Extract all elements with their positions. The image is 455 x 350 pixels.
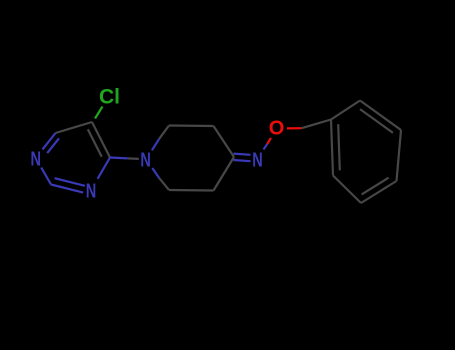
svg-text:N: N xyxy=(30,148,41,170)
svg-text:N: N xyxy=(140,150,151,172)
svg-text:N: N xyxy=(86,180,97,202)
svg-text:N: N xyxy=(252,150,263,172)
svg-text:O: O xyxy=(269,118,285,140)
svg-text:Cl: Cl xyxy=(99,86,120,109)
